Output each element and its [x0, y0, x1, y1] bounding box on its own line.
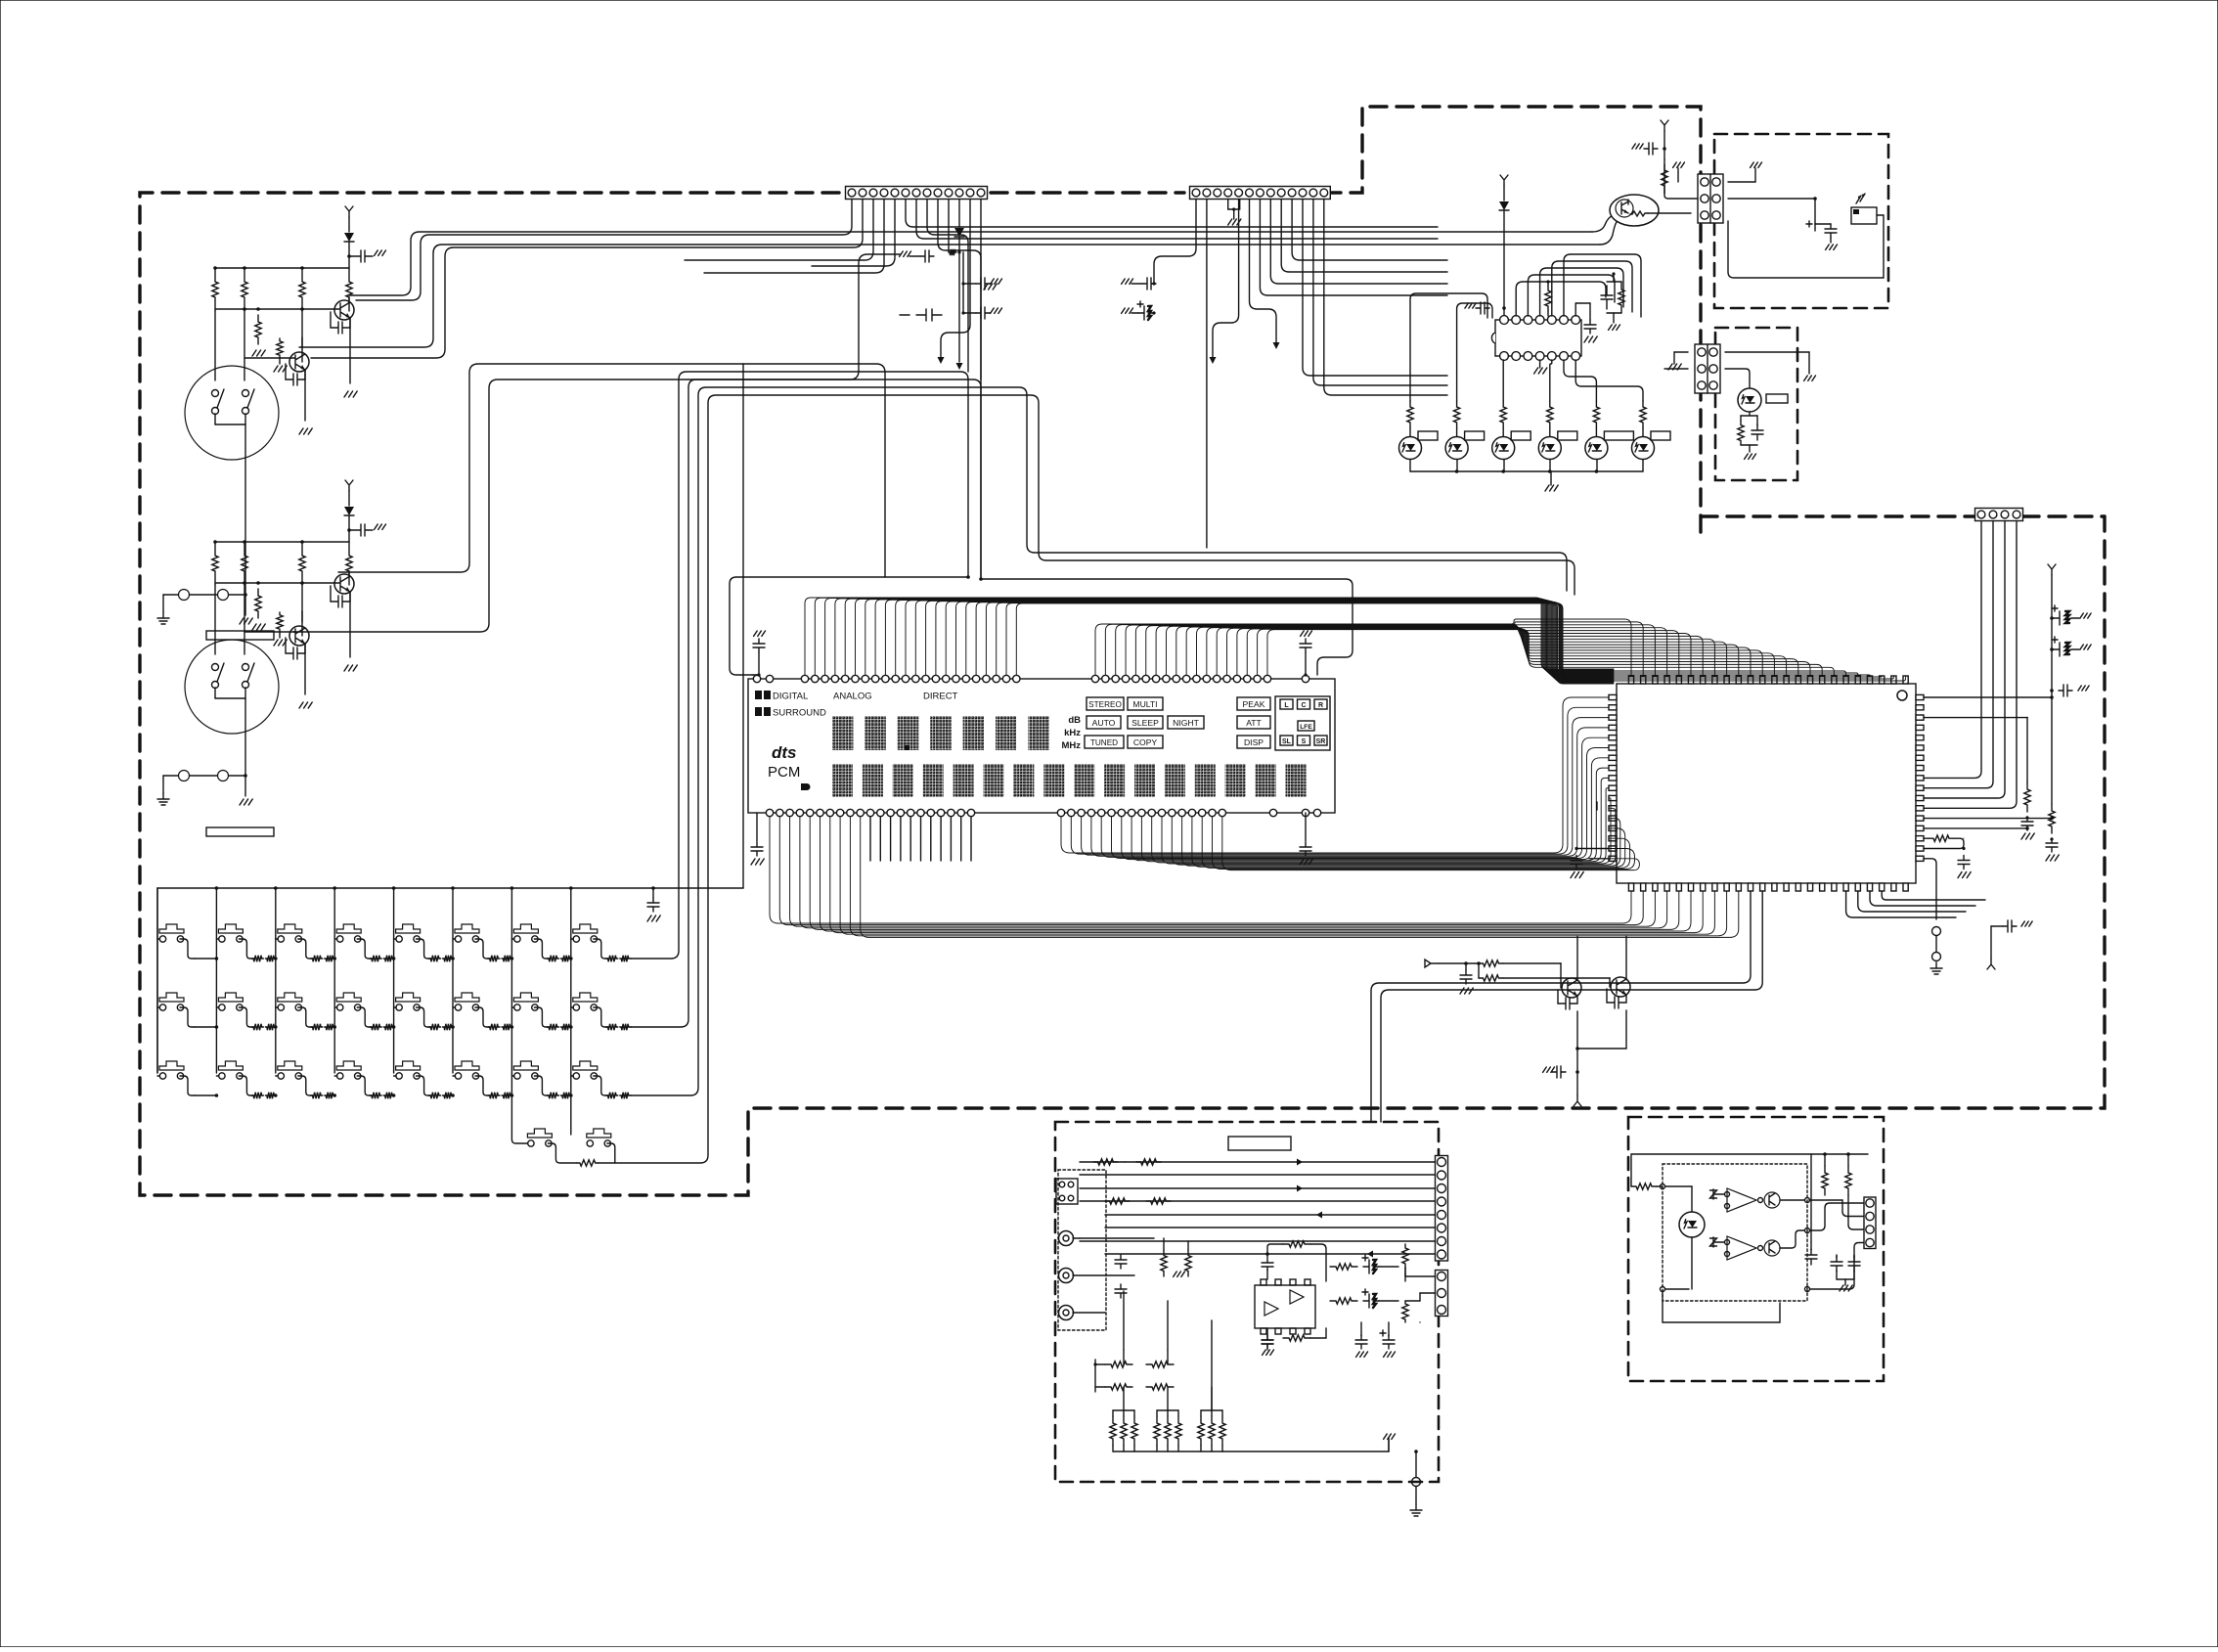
dashed board outline (front panel) [140, 193, 2105, 1195]
resistor [212, 542, 218, 585]
svg-text:C: C [1301, 702, 1306, 709]
resistor [299, 542, 305, 585]
resistor [311, 1093, 323, 1098]
wire button branch [394, 938, 397, 940]
connector [1436, 1156, 1448, 1262]
diode [344, 233, 354, 242]
resistor [1105, 1362, 1132, 1367]
label [1558, 431, 1577, 440]
resistor [383, 956, 393, 961]
ground [344, 665, 357, 671]
wire [941, 200, 970, 357]
ground [2021, 833, 2034, 839]
svg-text:SL: SL [1282, 738, 1292, 745]
push switch [336, 993, 361, 1002]
capacitor [1848, 1256, 1860, 1272]
diode [1499, 201, 1509, 210]
wire row out [630, 1026, 632, 1028]
zener A [1710, 1189, 1717, 1199]
resistor [1209, 1416, 1215, 1446]
display flag PEAK [1237, 697, 1270, 710]
wire column [215, 888, 217, 1073]
capacitor [1115, 1255, 1127, 1269]
wire button branch [453, 938, 456, 940]
capacitor [2059, 685, 2072, 696]
polarized capacitor [1363, 1260, 1379, 1273]
capacitor display bottom-left [756, 813, 758, 841]
svg-text:DISP: DISP [1244, 737, 1264, 747]
resistor [1154, 1416, 1160, 1446]
rotary encoder [185, 640, 279, 734]
connector [1436, 1271, 1448, 1317]
capacitor [1460, 970, 1472, 984]
ground [1122, 279, 1133, 284]
resistor [311, 956, 323, 961]
svg-text:TUNED: TUNED [1090, 738, 1118, 747]
wire encoder2 out A [338, 364, 885, 577]
capacitor [1262, 1259, 1273, 1271]
resistor [606, 1093, 618, 1098]
wire [244, 357, 295, 359]
resistor [325, 1024, 334, 1030]
ground [1263, 1350, 1274, 1355]
connector 2x3 [1695, 344, 1720, 393]
wire r6 [1105, 1227, 1435, 1228]
ground [1958, 872, 1971, 878]
LED [1585, 437, 1608, 460]
switch contacts [179, 590, 190, 601]
antenna mark [2048, 564, 2056, 575]
capacitor [1571, 856, 1582, 870]
ground [1609, 325, 1620, 330]
resistor [443, 1093, 453, 1098]
phones jack assembly [1058, 1170, 1106, 1330]
ground [1804, 376, 1816, 380]
resistor [1402, 1301, 1408, 1322]
capacitor [1300, 639, 1311, 652]
resistor [502, 1024, 511, 1030]
LED [1492, 437, 1515, 460]
svg-text:kHz: kHz [1064, 728, 1081, 738]
wire column [275, 888, 277, 1073]
ground [1534, 368, 1547, 374]
capacitor [920, 250, 934, 262]
wire row out [630, 958, 632, 960]
ground [1826, 245, 1838, 249]
wire column [393, 888, 395, 1073]
svg-text:NIGHT: NIGHT [1173, 718, 1199, 728]
resistor [1146, 1384, 1174, 1390]
push switch [159, 1061, 184, 1070]
wire [958, 252, 960, 362]
resistor [1330, 1264, 1357, 1270]
wires to CN9 [1809, 1199, 1842, 1201]
ground [1543, 1067, 1555, 1072]
inverter A [1727, 1188, 1756, 1212]
ground [1751, 162, 1762, 167]
transistor B [1764, 1240, 1780, 1256]
ground [1384, 1434, 1396, 1439]
ground [2021, 921, 2032, 926]
ground [900, 251, 911, 256]
resistor [277, 338, 283, 358]
ground [1840, 1285, 1852, 1291]
arrow [1210, 357, 1217, 364]
resistor [1453, 401, 1459, 428]
display flag MULTI [1128, 697, 1163, 710]
capacitor [1752, 424, 1763, 440]
svg-text:ANALOG: ANALOG [833, 692, 872, 702]
wire button branch [216, 1075, 219, 1077]
resistor [429, 1093, 441, 1098]
wire bank bus [1222, 1451, 1389, 1452]
push switch [527, 1129, 552, 1138]
resistor [1500, 401, 1506, 428]
wire row3 out [632, 387, 1567, 1095]
display dummy pin stubs [869, 817, 871, 861]
display flag ATT [1237, 716, 1270, 729]
earth ground [157, 793, 169, 805]
LED [1679, 1212, 1705, 1237]
resistor [383, 1093, 393, 1098]
capacitor [1805, 1249, 1817, 1265]
arrow [938, 357, 945, 364]
capacitor emitter bypass [1558, 990, 1577, 1009]
resistor [1146, 1362, 1174, 1367]
wires DIP to LED resistors [1502, 360, 1504, 401]
resistor [1593, 401, 1599, 428]
resistor [488, 1093, 500, 1098]
wire encoder2 out B [293, 254, 900, 632]
bus display to QFP left [1061, 697, 1609, 853]
wire display top-right [981, 579, 1353, 675]
capacitor [1142, 278, 1156, 290]
wire row out [630, 1094, 632, 1096]
resistor [1402, 1244, 1408, 1268]
label [1651, 431, 1670, 440]
wire matrix top bus [157, 887, 743, 889]
LED [1538, 437, 1561, 460]
wire button branch [157, 1075, 160, 1077]
ground [2046, 855, 2059, 861]
wire rail [215, 267, 349, 269]
capacitor base bypass [331, 586, 350, 607]
earth ground [157, 612, 169, 624]
capacitor [1383, 1335, 1395, 1349]
resistor [1619, 282, 1624, 313]
ground [991, 279, 1002, 284]
wire tuner to CN [1658, 212, 1691, 214]
zener B [1710, 1237, 1717, 1247]
ground [1632, 144, 1643, 149]
capacitor [2050, 689, 2054, 692]
wire button branch [276, 1006, 279, 1008]
connector [846, 187, 988, 200]
capacitor to gnd [349, 524, 373, 536]
wire emitters [1576, 1011, 1578, 1049]
capacitor [1958, 856, 1970, 870]
display flag COPY [1128, 736, 1163, 748]
resistor [620, 1024, 630, 1030]
svg-text:AUTO: AUTO [1092, 718, 1116, 728]
resistor [265, 956, 275, 961]
jack G [1059, 1306, 1074, 1320]
resistor [1479, 960, 1503, 966]
ground [274, 366, 287, 372]
oval transistor [1610, 195, 1659, 226]
display flag SLEEP [1128, 716, 1163, 729]
resistor [1822, 1166, 1828, 1195]
wire QFP to power unit [1371, 891, 1751, 1122]
switch contacts [179, 771, 190, 781]
push switch [573, 993, 598, 1002]
ground [299, 428, 312, 434]
rotary encoder [185, 366, 279, 460]
connector [1864, 1197, 1876, 1249]
resistor [606, 956, 618, 961]
wire button branch [157, 938, 160, 940]
capacitor base bypass [331, 312, 350, 334]
wire LED [1502, 428, 1504, 436]
tuner IC DIP [1495, 320, 1581, 356]
wire 4th row [511, 1073, 527, 1143]
resistor [346, 542, 352, 585]
ground [344, 391, 357, 397]
resistor [1929, 835, 1954, 841]
polarized capacitor [1363, 1294, 1379, 1308]
wire LED [1549, 428, 1551, 436]
ecap right [1388, 1322, 1390, 1336]
capacitor [1300, 842, 1311, 856]
wire matrix left bus [156, 888, 158, 1073]
wire r4 [1080, 1200, 1435, 1202]
resistor [1185, 1250, 1191, 1276]
capacitor [1601, 286, 1613, 309]
wire cell0 [195, 1094, 216, 1096]
resistor [1105, 1384, 1132, 1390]
resistor [1330, 1298, 1357, 1304]
wire rail [215, 582, 340, 584]
display dot matrix row1 [832, 716, 854, 750]
wire CN1 fan left [356, 200, 852, 300]
capacitor [751, 842, 763, 856]
wire DIP pin7 [1575, 303, 1576, 316]
ground [1668, 364, 1681, 370]
label [1766, 394, 1788, 403]
resistor [370, 1093, 381, 1098]
wire rail [215, 308, 340, 310]
wire cell0 [195, 958, 216, 960]
wire QFP right lower [1924, 818, 2052, 820]
resistor [502, 1093, 511, 1098]
wire button branch [334, 938, 337, 940]
resistor [1161, 1250, 1167, 1276]
wire top rail [1811, 1153, 1868, 1155]
wire r3 [1080, 1187, 1435, 1189]
wire LED [1409, 428, 1411, 436]
capacitor [1115, 1284, 1127, 1298]
wire [214, 585, 216, 654]
antenna mark [1987, 959, 1995, 969]
wire button branch [216, 1006, 219, 1008]
power unit label [1228, 1137, 1291, 1150]
wire loop top [1631, 1154, 1811, 1242]
wire display frame [730, 577, 968, 675]
transistor [334, 574, 354, 594]
svg-text:DIGITAL: DIGITAL [773, 692, 808, 702]
resistor [251, 1024, 263, 1030]
cap detail [1815, 223, 1831, 225]
capacitor display bottom-right [1305, 813, 1307, 841]
resistor [299, 268, 305, 311]
push switch [396, 1061, 421, 1070]
resistor [1176, 1416, 1181, 1446]
transistor [1611, 977, 1630, 997]
wire button branch [571, 1006, 574, 1008]
cap [1124, 1161, 1126, 1163]
transistor [334, 300, 354, 320]
push switch [396, 993, 421, 1002]
ground [1301, 631, 1312, 636]
microcontroller IC QFP [1617, 684, 1916, 883]
connector 2x3 [1698, 174, 1723, 223]
wire LED [1456, 428, 1458, 436]
wire [244, 631, 295, 633]
op-amp IC [1255, 1285, 1315, 1328]
wire LED [1642, 428, 1644, 436]
wires sensor [1657, 1185, 1663, 1187]
transistor [289, 626, 309, 646]
ground [252, 350, 265, 356]
antenna mark [1574, 1095, 1581, 1106]
capacitor [1476, 302, 1489, 314]
push switch [336, 1061, 361, 1070]
push switch [573, 1061, 598, 1070]
push switch [218, 993, 243, 1002]
svg-text:R: R [1318, 702, 1323, 709]
capacitor [2021, 817, 2033, 830]
svg-text:dB: dB [1068, 715, 1081, 726]
push switch [336, 924, 361, 933]
wire column [510, 888, 512, 1073]
resistor [255, 589, 261, 618]
dashed box tuner display sub [1714, 134, 1888, 308]
wires DIP top fan [1516, 282, 1606, 316]
LED [1399, 437, 1422, 460]
capacitor [1584, 320, 1596, 334]
svg-text:MHz: MHz [1061, 740, 1081, 751]
wire button branch [453, 1006, 456, 1008]
resistor [1131, 1416, 1137, 1446]
push switch [278, 993, 302, 1002]
push switch [513, 1061, 538, 1070]
ground [2078, 686, 2089, 691]
antenna mark [1661, 120, 1668, 131]
zener + cap [916, 309, 942, 321]
resistor [1407, 401, 1413, 428]
display pointer [801, 783, 811, 790]
display top pins [753, 675, 760, 682]
resistor [560, 1093, 570, 1098]
wire [1589, 858, 1609, 860]
wire emitter down [304, 644, 306, 694]
ground [751, 859, 764, 865]
earth ground [1930, 962, 1942, 974]
transistor [1562, 978, 1581, 998]
ground [984, 284, 997, 290]
wire base 2 [1503, 977, 1610, 979]
wires jacks [1073, 1237, 1154, 1239]
resistor [242, 268, 247, 311]
resistor [1165, 1416, 1171, 1446]
spacer bar [206, 631, 274, 640]
junction dots [966, 575, 970, 579]
antenna mark [1500, 175, 1508, 186]
wires bank to top [1123, 1387, 1125, 1410]
wire [301, 311, 303, 362]
wire button branch [216, 938, 219, 940]
bus QFP top to display [1095, 619, 1631, 676]
LED [1445, 437, 1468, 460]
push switch [159, 993, 184, 1002]
ground [1388, 1438, 1390, 1451]
resistor [1220, 1416, 1225, 1446]
bus display mid to QFP [805, 598, 1614, 675]
sensor caps [1814, 199, 1816, 224]
display dot matrix row2 [832, 764, 853, 797]
wire button branch [157, 1006, 160, 1008]
ground [1545, 485, 1558, 491]
wire encoder1 out A to tuner [349, 232, 1592, 295]
capacitor [753, 639, 765, 652]
antenna mark [345, 206, 353, 217]
ground [1228, 219, 1241, 225]
wire button branch [511, 938, 514, 940]
connector [1190, 187, 1331, 200]
ground [240, 618, 252, 624]
capacitor [1831, 1256, 1842, 1272]
svg-text:dts: dts [772, 743, 797, 762]
wire QFP left low [1576, 848, 1609, 850]
display flag NIGHT [1168, 716, 1204, 729]
wire emitter to gnd [349, 318, 351, 383]
push switch [513, 924, 538, 933]
resistor [547, 956, 558, 961]
resistor [370, 956, 381, 961]
resistor [1631, 1183, 1657, 1189]
wire [214, 311, 216, 380]
inverter B [1727, 1236, 1756, 1260]
wire r8 [1105, 1253, 1435, 1255]
resistor [325, 1093, 334, 1098]
antenna mark [1419, 1321, 1421, 1323]
label [1511, 431, 1530, 440]
wire button branch [394, 1075, 397, 1077]
ground [1122, 308, 1133, 313]
wire down antenna [1576, 1072, 1578, 1095]
wire column [156, 888, 158, 1073]
svg-text:PEAK: PEAK [1243, 699, 1265, 709]
resistor [429, 956, 441, 961]
ground [274, 640, 287, 646]
wire CN6 to LED box [1725, 351, 1809, 353]
resistor [1146, 1198, 1171, 1204]
resistor [949, 249, 956, 255]
wire row2 out [632, 380, 981, 1027]
svg-text:COPY: COPY [1133, 737, 1158, 747]
resistor [2049, 804, 2055, 833]
svg-text:SLEEP: SLEEP [1131, 718, 1159, 728]
